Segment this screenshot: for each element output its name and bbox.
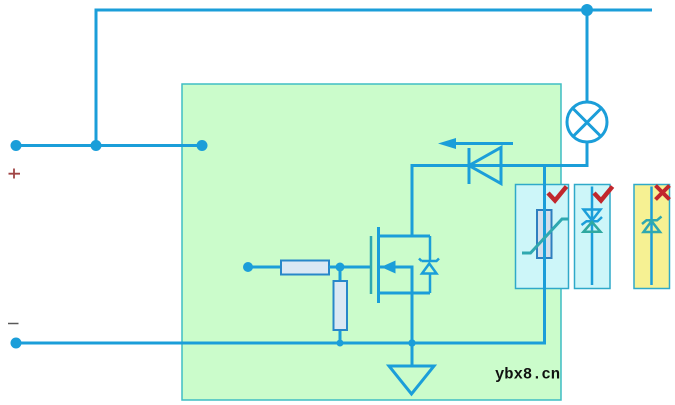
body connection bbox=[380, 267, 412, 293]
wire: gate input bbox=[248, 266, 281, 269]
varistor diagonal bbox=[522, 219, 569, 253]
channel bbox=[377, 227, 380, 303]
wire: top rail bbox=[96, 10, 652, 146]
terminal dot into block bbox=[197, 140, 208, 151]
wire: left input rail bbox=[16, 144, 202, 147]
junction rail R2 bbox=[337, 340, 344, 347]
source down bbox=[411, 293, 414, 343]
diode D1 bbox=[469, 148, 501, 185]
varistor RV1 bbox=[537, 210, 552, 258]
zener in box 3 bbox=[642, 187, 662, 286]
check mark box2 bbox=[594, 187, 613, 201]
terminal dot plus bbox=[11, 140, 22, 151]
option box 1 (varistor, approved) bbox=[516, 185, 569, 289]
lamp L1 bbox=[567, 102, 607, 142]
resistor R2 bbox=[334, 281, 348, 330]
check mark box1 bbox=[548, 187, 567, 201]
current flow arrow bbox=[455, 142, 513, 145]
resistor R1 bbox=[281, 261, 329, 275]
drain bar bbox=[379, 235, 431, 238]
ground bbox=[411, 343, 414, 366]
wire: lamp feed bbox=[586, 10, 589, 102]
varistor branch wire over rect bbox=[543, 186, 546, 288]
junction gate divider bbox=[336, 263, 345, 272]
junction A bbox=[91, 140, 102, 151]
wire: lamp to drain bbox=[412, 142, 587, 236]
body arrow bbox=[381, 261, 396, 274]
MOSFET Q1 bbox=[371, 227, 430, 343]
body diode bbox=[419, 236, 439, 293]
label plus bbox=[9, 169, 21, 179]
TVS in box 2 bbox=[582, 187, 603, 286]
junction top bbox=[581, 4, 593, 16]
junction rail source bbox=[408, 339, 415, 346]
option box 3 (zener, rejected) bbox=[634, 185, 670, 289]
terminal dot minus bbox=[11, 338, 22, 349]
wire: R1 to gate bbox=[329, 266, 371, 269]
X mark box3 bbox=[656, 186, 670, 200]
source bar bbox=[379, 292, 431, 295]
option box 2 (TVS, approved) bbox=[575, 185, 611, 289]
label minus bbox=[8, 323, 19, 325]
wire: varistor branch + bottom rail bbox=[16, 166, 545, 344]
svg-text:ybx8.cn: ybx8.cn bbox=[495, 366, 560, 384]
gate input node bbox=[243, 262, 253, 272]
wire: junction to R2 bbox=[339, 267, 342, 343]
gate bar bbox=[370, 236, 373, 294]
main IC block (green) bbox=[182, 84, 561, 400]
